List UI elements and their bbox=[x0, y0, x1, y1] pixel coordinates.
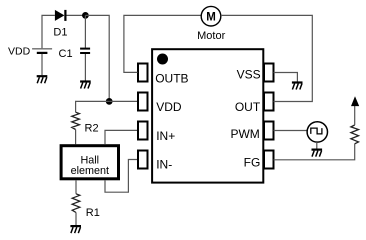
wire pulse source to ground bbox=[316, 142, 318, 149]
pin IN- bbox=[138, 151, 148, 169]
wire top rail junction to VDD-node junction bbox=[85, 15, 109, 101]
wire Hall element to R1 bbox=[75, 180, 77, 194]
svg-text:VSS: VSS bbox=[237, 68, 261, 82]
motor M bbox=[201, 6, 221, 26]
svg-text:R2: R2 bbox=[85, 122, 99, 134]
pin FG bbox=[264, 151, 274, 169]
wire R1 to ground bbox=[75, 213, 77, 226]
svg-text:D1: D1 bbox=[53, 27, 67, 39]
pin VDD bbox=[138, 93, 148, 111]
diode D1 bbox=[55, 10, 66, 21]
node junction (top, C1 tap) bbox=[82, 12, 89, 19]
wire junction to pin VDD bbox=[109, 100, 137, 102]
wire junction to R2 bbox=[76, 101, 110, 112]
battery VDD supply bbox=[32, 49, 52, 53]
wire diode cathode to junction bbox=[67, 14, 86, 16]
node junction (VDD pin rail) bbox=[106, 98, 113, 105]
svg-text:M: M bbox=[206, 11, 216, 23]
wire battery top to diode anode bbox=[42, 15, 55, 48]
supply arrow (FG pull-up rail) bbox=[351, 96, 359, 106]
svg-text:element: element bbox=[71, 165, 109, 177]
svg-text:IN-: IN- bbox=[156, 158, 172, 172]
ground (C1) bbox=[80, 82, 91, 89]
svg-text:R1: R1 bbox=[86, 207, 100, 219]
pulse source (PWM input) bbox=[307, 122, 327, 142]
svg-text:FG: FG bbox=[244, 156, 261, 170]
svg-text:Motor: Motor bbox=[197, 30, 225, 42]
svg-text:VDD: VDD bbox=[8, 46, 31, 58]
pin PWM bbox=[264, 122, 274, 140]
wire Hall element to pin IN+ bbox=[105, 130, 138, 144]
svg-text:C1: C1 bbox=[59, 48, 73, 60]
pin IN+ bbox=[138, 122, 148, 140]
svg-text:IN+: IN+ bbox=[156, 129, 175, 143]
svg-text:OUT: OUT bbox=[235, 100, 261, 114]
pin OUT bbox=[264, 93, 274, 111]
pin 1 marker bbox=[157, 54, 168, 65]
svg-text:VDD: VDD bbox=[156, 100, 182, 114]
wire pull-up resistor to supply arrow bbox=[354, 104, 356, 125]
hall element block bbox=[61, 146, 118, 179]
wire motor to pin OUT bbox=[221, 15, 312, 101]
pin OUTB bbox=[138, 64, 148, 82]
resistor pull-up (FG) bbox=[351, 125, 359, 144]
ground (battery) bbox=[37, 76, 48, 83]
wire battery bottom to ground bbox=[41, 54, 43, 75]
resistor R2 bbox=[72, 112, 80, 129]
ground (VSS) bbox=[292, 83, 303, 90]
resistor R1 bbox=[72, 194, 80, 213]
svg-text:OUTB: OUTB bbox=[155, 71, 188, 85]
wire C1 bottom to ground bbox=[84, 54, 86, 81]
wire pin VSS to ground bbox=[274, 73, 298, 82]
svg-text:PWM: PWM bbox=[230, 127, 259, 141]
wire junction down to C1 bbox=[84, 15, 86, 48]
pin VSS bbox=[264, 64, 274, 82]
wire pin PWM to pulse source bbox=[274, 130, 308, 132]
wire pin FG to pull-up resistor bbox=[274, 144, 355, 160]
wire Hall element to pin IN- bbox=[105, 160, 138, 193]
wire pin OUTB up to motor bbox=[124, 15, 201, 72]
IC body U1 bbox=[152, 49, 263, 182]
ground (pulse source) bbox=[312, 150, 323, 157]
wire R2 to Hall element bbox=[75, 130, 77, 145]
capacitor C1 bbox=[80, 49, 90, 53]
ground (R1) bbox=[70, 226, 81, 233]
